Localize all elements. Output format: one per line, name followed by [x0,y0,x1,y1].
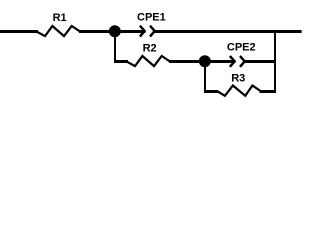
wire: right vertical joining top, middle and bottom branches [274,30,276,93]
svg-text:CPE2: CPE2 [227,42,256,54]
wire: CPE2 to right vertical (middle branch) [244,60,276,63]
wire: left lead into R1 (top branch) [0,30,38,33]
node A (junction dot) [109,25,121,37]
resistor R2 [127,56,171,66]
wire: middle branch lead into R2 [114,60,128,63]
resistor R1 [37,26,81,36]
wire: R1 to CPE1 through node A [79,30,146,33]
resistor R3 [217,86,261,96]
wire: CPE1 to right lead (top branch) [154,30,302,33]
capacitor CPE1 (constant phase element, double chevron) [140,26,155,37]
svg-text:CPE1: CPE1 [137,12,166,24]
capacitor CPE2 (constant phase element, double chevron) [230,56,245,67]
svg-text:R3: R3 [231,72,245,84]
svg-text:R1: R1 [53,12,67,24]
svg-text:R2: R2 [143,42,157,54]
wire: vertical from node B down to bottom branch [204,56,206,93]
wire: vertical from node A down to middle branch [114,26,116,63]
wire: R3 to right vertical (bottom branch) [260,90,277,93]
wire: R2 to CPE2 through node B [169,60,236,63]
node B (junction dot) [199,55,211,67]
wire: bottom branch lead into R3 [204,90,218,93]
